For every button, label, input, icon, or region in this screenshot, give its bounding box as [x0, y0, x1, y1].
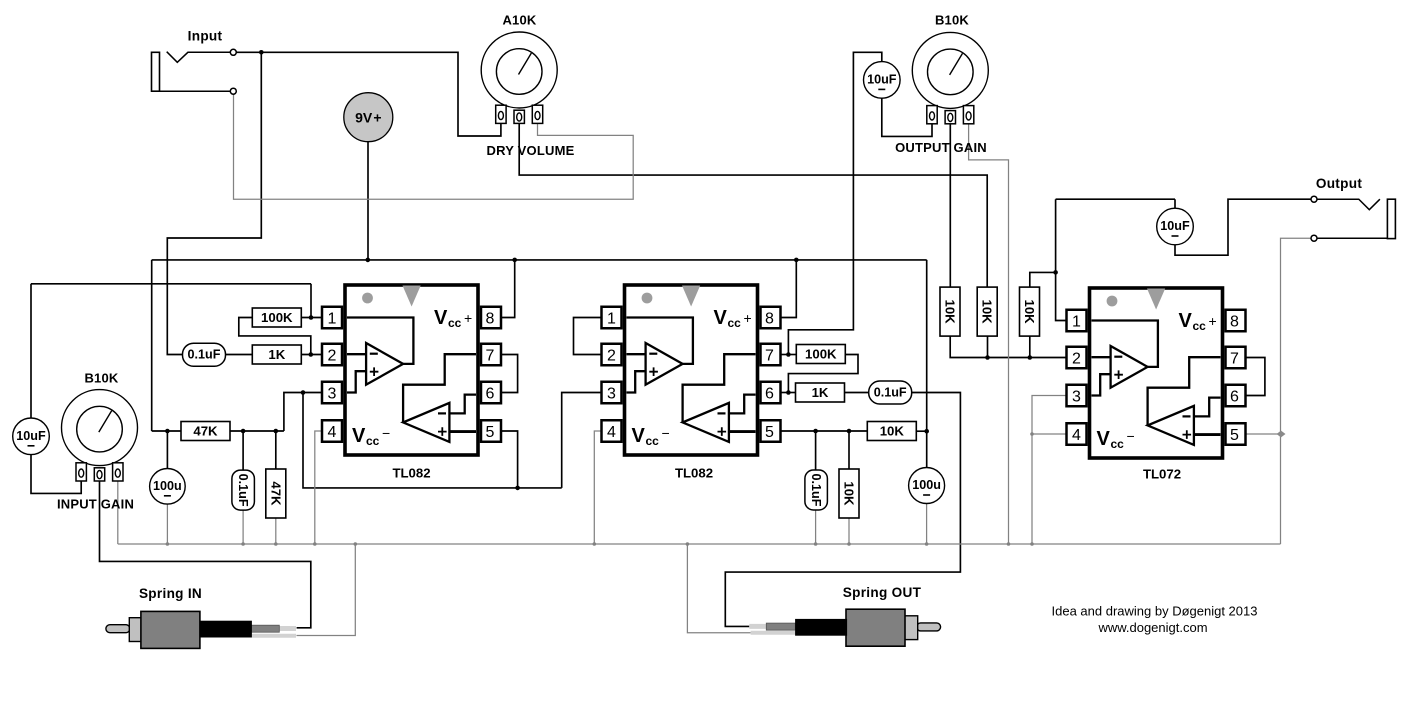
- svg-text:TL082: TL082: [675, 466, 713, 481]
- wire node to C4: [166, 431, 168, 468]
- svg-text:INPUT GAIN: INPUT GAIN: [57, 497, 134, 512]
- svg-text:A10K: A10K: [502, 13, 536, 28]
- wire OUTPUT GAIN lug3 to ground: [969, 124, 1009, 544]
- svg-text:Idea and drawing by Døgenigt 2: Idea and drawing by Døgenigt 2013: [1052, 604, 1258, 619]
- svg-text:10K: 10K: [943, 299, 958, 324]
- svg-text:100K: 100K: [805, 347, 837, 362]
- wire input signal branch to C1: [167, 52, 261, 354]
- wire input tip to DRY VOLUME lug1: [235, 52, 501, 136]
- RCA plug Spring IN: [106, 611, 296, 648]
- battery node 9V+: [344, 93, 393, 142]
- svg-text:10K: 10K: [842, 481, 857, 506]
- svg-text:Spring OUT: Spring OUT: [843, 585, 922, 600]
- wire U2 pin6 lead: [781, 392, 796, 394]
- wire C9 to ground: [815, 510, 817, 544]
- wire bias bus up to U2 pin3: [562, 393, 602, 488]
- wire U2 pin7 lead: [781, 354, 797, 356]
- wire R9 to ground: [848, 518, 850, 544]
- wire ground bus: [118, 543, 1281, 545]
- svg-text:0.1uF: 0.1uF: [809, 474, 823, 507]
- wire Spring IN sleeve to ground: [297, 544, 356, 636]
- wire ground bus up to output sleeve: [1281, 238, 1313, 544]
- svg-text:9V +: 9V +: [355, 109, 381, 125]
- wire U2 pin4 to ground: [594, 431, 601, 544]
- wire U1 pin1 node down: [310, 284, 312, 318]
- svg-text:10K: 10K: [980, 299, 995, 324]
- wire U3 pin4 to ground: [1032, 433, 1067, 435]
- svg-text:www.dogenigt.com: www.dogenigt.com: [1097, 620, 1207, 635]
- svg-text:10K: 10K: [880, 424, 905, 439]
- wire INPUT GAIN lug3 to ground bus: [117, 481, 119, 544]
- wire U1 pin7-pin6 jumper: [501, 355, 518, 393]
- wire rail drop to R3: [152, 430, 181, 432]
- wire U1 pin4 to ground: [315, 431, 322, 544]
- wire R1 to U1 pin2: [302, 354, 322, 356]
- svg-text:Input: Input: [188, 28, 223, 43]
- wire C3 to ground: [242, 510, 244, 544]
- svg-text:100u: 100u: [153, 479, 182, 493]
- wire input sleeve ground to DRY VOLUME lug3: [234, 95, 634, 200]
- wire C4 to ground: [166, 503, 168, 545]
- wire INPUT GAIN wiper to Spring IN tip: [100, 481, 311, 628]
- wire R7 to C6: [845, 392, 869, 394]
- wire C1 to R1: [226, 354, 253, 356]
- resistor R12 10K (U3 feedback): [1020, 287, 1040, 336]
- potentiometer VR2 B10K OUTPUT GAIN: [912, 32, 988, 123]
- capacitor C2 10uF (to INPUT GAIN): [13, 418, 50, 455]
- capacitor C7 10uF (to OUTPUT GAIN): [864, 62, 901, 99]
- resistor R4 47K (bias to ground): [266, 469, 286, 518]
- resistor R2 100K (U1 feedback): [252, 308, 301, 327]
- wire U3 pin5 to ground: [1246, 433, 1281, 435]
- input jack J1: [152, 49, 237, 94]
- wire R3 right lead junctions: [230, 430, 284, 432]
- wire C7 to OUTPUT GAIN lug1: [882, 98, 932, 136]
- svg-text:B10K: B10K: [84, 371, 118, 386]
- svg-text:TL072: TL072: [1143, 467, 1181, 482]
- wire down to C2: [30, 284, 32, 419]
- svg-text:B10K: B10K: [935, 13, 969, 28]
- capacitor C9 0.1uF (bias decoupling): [805, 470, 828, 510]
- wire rail right drop to C8: [926, 260, 928, 467]
- wire V+ rail left drop: [151, 260, 153, 431]
- wire bias node to U1 pin3: [284, 393, 322, 432]
- wire V+ rail: [152, 259, 927, 261]
- wire output node to U3 pin1: [1056, 199, 1067, 320]
- resistor R1 1K (U1 input): [252, 345, 301, 364]
- op-amp U1 TL082 (DIP-8): [322, 285, 501, 455]
- wire node to R4: [275, 431, 277, 469]
- svg-text:47K: 47K: [193, 424, 218, 439]
- wire node to C3: [242, 431, 244, 470]
- wire node to C9: [815, 431, 817, 470]
- capacitor C10 10uF (output coupling): [1157, 208, 1194, 245]
- output jack J2: [1311, 196, 1395, 241]
- wire U3 pin7-pin6 jumper: [1246, 358, 1265, 396]
- resistor R8 10K (bias): [867, 422, 916, 441]
- svg-text:OUTPUT GAIN: OUTPUT GAIN: [895, 140, 987, 155]
- wire U1 pin5 drop to bias bus: [501, 431, 518, 488]
- wire R2 feedback wrap to U1 pin2: [239, 318, 311, 355]
- wire R12 bottom lead: [1029, 336, 1031, 358]
- wire R12 top to output node: [1030, 272, 1056, 287]
- resistor R7 1K (U2 input): [796, 383, 845, 402]
- svg-text:1K: 1K: [268, 347, 285, 362]
- capacitor C4 100u (bias): [150, 469, 186, 505]
- resistor R9 10K (bias to ground): [839, 469, 859, 518]
- wire rail to U1 pin8: [501, 260, 515, 318]
- svg-text:0.1uF: 0.1uF: [874, 386, 907, 400]
- op-amp U3 TL072 (DIP-8): [1067, 288, 1246, 458]
- RCA plug Spring OUT: [749, 609, 940, 646]
- capacitor C8 100u (bias): [909, 468, 945, 504]
- wire summing bus to U3 pin2: [950, 336, 1066, 358]
- junction dots (gray ground bus): [166, 432, 1034, 546]
- svg-text:0.1uF: 0.1uF: [188, 348, 221, 362]
- capacitor C6 0.1uF (spring return coupling): [869, 381, 912, 404]
- svg-text:10K: 10K: [1022, 299, 1037, 324]
- wire U2 pin5 lead to R8: [781, 430, 868, 432]
- potentiometer VR1 A10K DRY VOLUME: [481, 32, 557, 123]
- svg-text:47K: 47K: [268, 481, 283, 506]
- wire U1 pin1 to C2 long run: [31, 283, 311, 285]
- svg-text:10uF: 10uF: [1160, 219, 1190, 233]
- resistor R10 10K (dry mix): [977, 287, 997, 336]
- junction dots (black): [165, 50, 1058, 490]
- wire output node to C10: [1056, 199, 1175, 208]
- wire U2 pin1-pin2 jumper: [574, 318, 602, 355]
- svg-text:100K: 100K: [261, 310, 293, 325]
- op-amp U2 TL082 (DIP-8): [602, 285, 781, 455]
- svg-text:Spring IN: Spring IN: [139, 586, 202, 601]
- wire C8 to ground: [926, 503, 928, 544]
- wire R6 feedback wrap to U2 pin6: [788, 355, 858, 393]
- wire OUTPUT GAIN wiper to R11: [949, 124, 951, 287]
- wire node to R9: [848, 431, 850, 469]
- potentiometer VR3 B10K INPUT GAIN: [62, 390, 138, 481]
- junction marker U3 pin5 to ground: [1277, 431, 1286, 438]
- wire U3 pin3 to ground: [1032, 396, 1067, 545]
- wire C10 to Output jack tip: [1175, 199, 1312, 255]
- resistor R6 100K (U2 feedback): [796, 345, 845, 364]
- wire R8 to node: [917, 430, 927, 432]
- svg-text:0.1uF: 0.1uF: [236, 474, 250, 507]
- svg-text:10uF: 10uF: [867, 72, 897, 86]
- wire R4 to ground: [275, 518, 277, 544]
- wire 9V+ lead: [367, 142, 369, 260]
- resistor R11 10K (wet mix): [940, 287, 960, 336]
- wire DRY VOLUME wiper to R10: [519, 123, 987, 287]
- wire rail to U2 pin8: [781, 260, 797, 318]
- capacitor C3 0.1uF (bias decoupling): [232, 470, 255, 510]
- wire R10 bottom lead: [987, 336, 989, 358]
- wire C2 to INPUT GAIN lug1: [31, 455, 81, 494]
- resistor R3 47K (bias from V+): [181, 422, 230, 441]
- svg-text:100u: 100u: [912, 478, 941, 492]
- wire U1 pin3 bias bus down: [303, 393, 562, 488]
- svg-text:Output: Output: [1316, 176, 1363, 191]
- svg-text:TL082: TL082: [392, 466, 430, 481]
- capacitor C1 0.1uF (input coupling): [183, 343, 226, 366]
- wire R2 to U1 pin1: [302, 317, 322, 319]
- wire U2 pin7 to C7 to OUTPUT GAIN: [788, 52, 881, 354]
- svg-text:10uF: 10uF: [16, 429, 46, 443]
- svg-text:1K: 1K: [812, 385, 829, 400]
- wire C6 to Spring OUT tip: [725, 393, 960, 627]
- svg-text:DRY VOLUME: DRY VOLUME: [487, 143, 575, 158]
- wire Spring OUT sleeve to ground: [687, 544, 750, 633]
